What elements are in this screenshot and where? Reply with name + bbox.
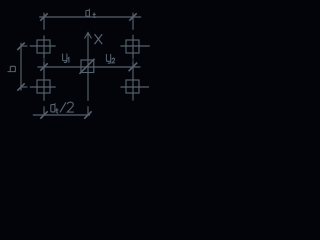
centroid vertical axis line bbox=[87, 33, 89, 101]
label a_t bbox=[86, 9, 95, 17]
dimension line a_t/2 (bottom horizontal) bbox=[33, 114, 90, 116]
label a_t/2 bbox=[51, 104, 58, 114]
bolt B2 vertical centerline bbox=[132, 35, 134, 58]
label a_t/2 slash bbox=[60, 102, 66, 112]
bolt B4 vertical centerline bbox=[132, 62, 134, 101]
extension to b dimension (bottom row) bbox=[21, 86, 27, 88]
dimension line b (left vertical) bbox=[20, 43, 22, 91]
centroid diagonal tick bbox=[79, 59, 94, 74]
label y_1 bbox=[63, 54, 69, 63]
tick at a_t/2 right end bbox=[84, 111, 91, 118]
tick at b top end bbox=[17, 43, 24, 50]
label b (rotated) bbox=[8, 66, 15, 71]
tick at a_t left end bbox=[40, 13, 47, 20]
bolt B4 horizontal centerline bbox=[120, 86, 149, 88]
extension line left column (top) bbox=[43, 13, 45, 30]
tick at y line left (bolt column 1) bbox=[40, 63, 47, 70]
extension line bottom left column bbox=[43, 106, 45, 115]
bolt B2 horizontal centerline bbox=[120, 45, 149, 47]
bolt B4 square (bottom-right) bbox=[126, 80, 139, 93]
bolt B1 horizontal centerline bbox=[30, 45, 56, 47]
tick at a_t/2 left end bbox=[40, 111, 47, 118]
dimension line y (through centroid) bbox=[37, 66, 140, 68]
bolt B2 square (top-right) bbox=[126, 40, 139, 53]
bolt B3 square (bottom-left) bbox=[37, 80, 50, 93]
bolt B1 vertical centerline bbox=[43, 35, 45, 58]
tick at b bottom end bbox=[17, 83, 24, 90]
tick at y line right (bolt column 2) bbox=[129, 63, 138, 72]
bolt B1 square (top-left) bbox=[37, 40, 50, 53]
tick at a_t right end bbox=[129, 13, 136, 20]
bolt B3 horizontal centerline bbox=[30, 86, 56, 88]
label X bbox=[95, 35, 102, 44]
bolt B1 centerline dim segment bbox=[43, 58, 45, 62]
centroid square bbox=[81, 60, 94, 73]
dimension line a_t (top horizontal) bbox=[39, 16, 141, 18]
extension to b dimension (top row) bbox=[21, 45, 27, 47]
extension line bottom centroid bbox=[87, 106, 89, 115]
label y_2 bbox=[106, 54, 114, 63]
extension line right column (top) bbox=[132, 13, 134, 30]
axis X arrowhead bbox=[85, 33, 92, 39]
bolt B2 centerline dim segment bbox=[132, 58, 134, 62]
bolt B3 vertical centerline bbox=[43, 62, 45, 101]
